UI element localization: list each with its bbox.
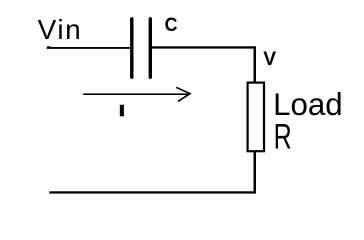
wire right vertical lower (R bottom to bottom rail)	[254, 152, 257, 194]
wire top-left (Vin to C)	[47, 46, 131, 49]
current arrow I shaft	[83, 93, 189, 95]
svg-text:R: R	[274, 116, 292, 156]
capacitor C1 plate 2	[149, 19, 152, 78]
wire right vertical upper (node V to R top)	[254, 46, 257, 82]
capacitor C1 plate 1	[130, 19, 133, 77]
wire top-right (C to node V)	[152, 46, 256, 48]
wire bottom rail	[49, 191, 256, 193]
svg-text:V: V	[263, 49, 276, 70]
resistor R1 (Load)	[248, 83, 264, 152]
current arrow I head	[176, 87, 190, 101]
svg-text:Vin: Vin	[38, 14, 83, 45]
svg-text:C: C	[165, 13, 178, 35]
label I	[120, 105, 124, 117]
